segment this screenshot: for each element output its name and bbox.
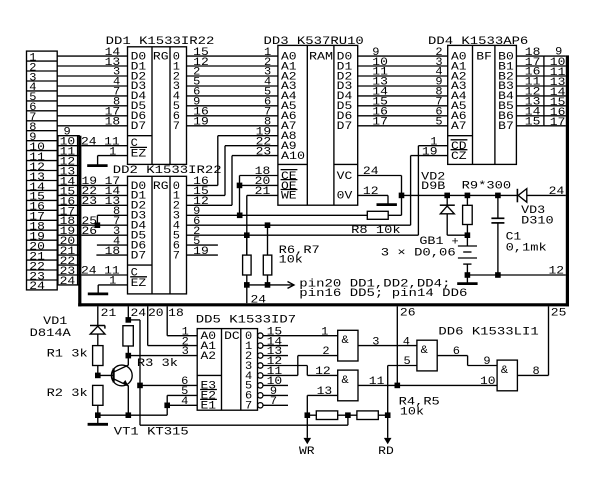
svg-text:9: 9 bbox=[64, 127, 71, 139]
svg-text:5: 5 bbox=[435, 117, 442, 129]
stub DD5 out13 bbox=[263, 355, 288, 357]
wire DD2 out4 row to DD4 CZ corner bbox=[187, 156, 411, 226]
svg-text:&: & bbox=[342, 335, 350, 347]
resistor R9*300 bbox=[462, 181, 512, 236]
labels of border crossings bbox=[101, 307, 567, 320]
svg-text:RG: RG bbox=[153, 181, 169, 193]
junction VC net and power rail bbox=[399, 193, 405, 199]
wire DD6.2 out6 to pin9 zigzag bbox=[437, 346, 497, 368]
svg-text:7: 7 bbox=[173, 121, 180, 133]
junction WE net on out5 row bbox=[244, 232, 250, 238]
svg-text:WE: WE bbox=[281, 191, 297, 203]
svg-text:24: 24 bbox=[29, 281, 45, 293]
svg-text:10k: 10k bbox=[400, 406, 425, 418]
net WE vertical to R6 bbox=[246, 195, 248, 255]
svg-text:24: 24 bbox=[81, 136, 97, 148]
junction R7 bottom bbox=[265, 282, 271, 288]
junction R2 bottom / emitter net bbox=[95, 412, 101, 418]
junction OE bbox=[237, 183, 243, 189]
svg-text:17: 17 bbox=[372, 117, 388, 129]
wire DD6 pin13 to WR net bbox=[307, 386, 337, 415]
svg-text:24: 24 bbox=[81, 266, 97, 278]
net CE/OE vertical to R8 row bbox=[239, 176, 241, 216]
svg-text:19: 19 bbox=[193, 246, 209, 258]
svg-text:RD: RD bbox=[378, 446, 394, 458]
junction R6 bottom bbox=[244, 282, 250, 288]
svg-text:R3 3k: R3 3k bbox=[137, 358, 179, 370]
svg-text:D814A: D814A bbox=[30, 328, 72, 340]
svg-text:R8 10k: R8 10k bbox=[351, 225, 401, 237]
junction pin18 branch bbox=[95, 222, 101, 228]
svg-text:19: 19 bbox=[422, 146, 438, 158]
svg-text:RAM: RAM bbox=[309, 51, 333, 63]
svg-text:&: & bbox=[501, 365, 509, 377]
wires DD4 B0-B7 to right connector bbox=[516, 47, 544, 129]
svg-text:VC: VC bbox=[337, 171, 353, 183]
svg-text:23: 23 bbox=[82, 196, 98, 208]
svg-text:18: 18 bbox=[168, 308, 184, 320]
svg-text:WR: WR bbox=[299, 446, 315, 458]
svg-text:0,1mk: 0,1mk bbox=[506, 243, 548, 255]
right thick bus line bbox=[566, 55, 569, 306]
wire DD6.1 out3 to pin4 bbox=[358, 336, 417, 348]
svg-text:pin16 DD5; pin14 DD6: pin16 DD5; pin14 DD6 bbox=[299, 288, 467, 300]
svg-text:GB1: GB1 bbox=[419, 236, 444, 248]
svg-text:6: 6 bbox=[453, 346, 460, 358]
svg-text:26: 26 bbox=[400, 307, 416, 319]
wire DD3 VC to power rail bbox=[358, 166, 402, 178]
resistors R6 R7 10k pull-ups bbox=[243, 225, 320, 285]
register DD1 K1533IR22 bbox=[106, 36, 215, 164]
svg-text:D310: D310 bbox=[521, 215, 554, 227]
svg-text:7: 7 bbox=[270, 396, 277, 408]
junction R7 top on out4 row bbox=[265, 222, 271, 228]
svg-text:DD4 K1533AP6: DD4 K1533AP6 bbox=[428, 36, 528, 48]
wire DD5 out15 to DD6 pin1 bbox=[263, 326, 338, 338]
junction 26 net bbox=[395, 383, 401, 389]
junction R5/RD bbox=[385, 412, 391, 418]
junction emitter on ground row bbox=[126, 412, 132, 418]
stub DD5 out10 bbox=[263, 384, 288, 386]
svg-text:VD1: VD1 bbox=[43, 316, 68, 328]
wire DD2 EZ to ground bbox=[98, 276, 127, 294]
svg-text:EZ: EZ bbox=[131, 149, 147, 161]
wires DD1 outputs 0-7 to DD3 A0-A7 bbox=[187, 47, 278, 129]
DD5 output inverter bubbles bbox=[258, 333, 263, 408]
svg-text:7: 7 bbox=[245, 401, 252, 413]
wire pin23 to DD2 C bbox=[81, 266, 128, 278]
wire DD4 CZ bbox=[411, 146, 448, 158]
wire WE bbox=[247, 186, 278, 198]
AND gate DD6.3 bbox=[338, 370, 358, 401]
DD5 output labels bbox=[267, 326, 283, 408]
svg-text:R1 3k: R1 3k bbox=[47, 348, 89, 360]
resistor R1 3k bbox=[47, 346, 103, 376]
svg-text:&: & bbox=[421, 345, 429, 357]
resistor R2 3k bbox=[47, 385, 103, 415]
junction C1 bottom bbox=[495, 272, 501, 278]
svg-text:CZ: CZ bbox=[451, 151, 467, 163]
svg-text:13: 13 bbox=[317, 386, 333, 398]
svg-text:2: 2 bbox=[322, 346, 329, 358]
svg-text:B7: B7 bbox=[498, 121, 514, 133]
svg-text:24: 24 bbox=[549, 186, 565, 198]
svg-text:24: 24 bbox=[131, 308, 147, 320]
wire emitter net to DD5 E2 bbox=[167, 386, 197, 398]
wire 20 to DD5 A1 bbox=[148, 306, 198, 348]
svg-text:3: 3 bbox=[372, 336, 379, 348]
wires connector pins 14-21 to DD2 D0-D7 bbox=[81, 176, 127, 258]
wires connector pins 1-8 to DD1 D0-D7 bbox=[57, 47, 127, 129]
svg-text:12: 12 bbox=[315, 366, 331, 378]
stub DD2 out6 bbox=[187, 244, 218, 246]
svg-text:25: 25 bbox=[551, 307, 567, 319]
ground bar for DD3 0V bbox=[377, 203, 397, 206]
svg-text:23: 23 bbox=[256, 146, 272, 158]
wire DD4 CD from write net bbox=[418, 136, 447, 148]
svg-text:9: 9 bbox=[555, 47, 562, 59]
capacitor C1 0,1mk bbox=[491, 195, 547, 275]
svg-text:EZ: EZ bbox=[131, 278, 147, 290]
svg-text:17: 17 bbox=[550, 117, 566, 129]
svg-text:0V: 0V bbox=[337, 191, 353, 203]
junction R4/R5 center bbox=[345, 412, 351, 418]
stub DD2 out7 bbox=[187, 254, 218, 256]
svg-text:3: 3 bbox=[182, 346, 189, 358]
wire RD net to DD6 pin5 bbox=[388, 356, 417, 415]
diode VD1 D814A bbox=[30, 306, 105, 345]
register DD2 K1533IR22 bbox=[113, 165, 222, 294]
wire emitter net to DD5 E1 bbox=[167, 396, 197, 408]
junction E3 on 24-net bbox=[137, 383, 143, 389]
wire DD2 out2 to DD3 A10 bbox=[187, 146, 278, 205]
wire 24-net to DD5 E3 bbox=[140, 376, 197, 388]
AND gate DD6.4 bbox=[497, 360, 517, 391]
svg-text:4: 4 bbox=[181, 396, 189, 408]
stub DD5 out14 bbox=[263, 345, 288, 347]
DD2 output labels bbox=[193, 176, 209, 258]
svg-text:1: 1 bbox=[109, 146, 117, 158]
wire collector net to DD5 A2 bbox=[128, 346, 197, 358]
svg-text:3 × D0,06: 3 × D0,06 bbox=[381, 248, 456, 260]
connector row wires 9-24 (cell dividers) bbox=[57, 136, 80, 285]
WR output arrow bbox=[299, 415, 315, 458]
right connector pin column bbox=[544, 47, 566, 129]
junction R3 bottom / collector / A2 wire bbox=[126, 353, 132, 359]
junction VD2 on rail bbox=[444, 193, 450, 199]
svg-text:R9*300: R9*300 bbox=[462, 181, 512, 193]
wire DD2 out3 row to R8 bbox=[187, 214, 368, 216]
svg-text:BF: BF bbox=[476, 51, 492, 63]
svg-text:24: 24 bbox=[60, 276, 76, 288]
svg-text:DD5 K1533ID7: DD5 K1533ID7 bbox=[196, 315, 296, 327]
junction R9/VD2/battery bbox=[465, 232, 471, 238]
RAM DD3 K537RU10 bbox=[264, 36, 364, 205]
wire DD6.4 out8 to border pin25 bbox=[517, 306, 548, 378]
wire 24-net bottom to R4/R5 center bbox=[140, 415, 348, 425]
ground bar for DD1 EZ bbox=[87, 164, 107, 167]
resistor R8 10k bbox=[351, 211, 401, 237]
svg-text:15: 15 bbox=[525, 117, 541, 129]
note arrow +5V pins bbox=[268, 278, 468, 300]
AND gate DD6.1 bbox=[338, 326, 539, 361]
wire DD2 out1 to DD3 A9 bbox=[187, 136, 278, 195]
svg-text:4: 4 bbox=[403, 336, 411, 348]
wire 18 to DD5 A0 bbox=[167, 306, 197, 338]
svg-text:12: 12 bbox=[549, 266, 565, 278]
svg-text:1: 1 bbox=[321, 326, 329, 338]
wire OE bbox=[240, 176, 278, 188]
svg-text:+: + bbox=[452, 236, 459, 248]
wire DD2 out0 to DD3 A8 bbox=[187, 126, 278, 185]
ground bar battery bbox=[457, 282, 477, 285]
svg-text:D7: D7 bbox=[131, 250, 147, 262]
svg-text:A10: A10 bbox=[281, 151, 305, 163]
wire DD6.3 out11 to DD6 pin10 bbox=[358, 376, 497, 388]
wire 26 from border to out11 row bbox=[396, 306, 398, 385]
connector inner pin column 9-24 bbox=[58, 127, 78, 288]
junction CE/OE net at R8 row bbox=[237, 213, 243, 219]
wire DD5 out12 to DD6 pin12 bbox=[263, 366, 338, 379]
wire emitter row to E-pins corner bbox=[98, 395, 167, 415]
stub DD5 out9 bbox=[263, 394, 288, 396]
junction R1/R2/base bbox=[95, 373, 101, 379]
wire DD1 EZ to ground bbox=[98, 146, 128, 165]
svg-text:&: & bbox=[342, 375, 350, 387]
resistors R4 R5 10k bbox=[307, 397, 440, 420]
transistor VT1 KT315 bbox=[98, 356, 189, 439]
svg-text:D7: D7 bbox=[337, 121, 353, 133]
svg-text:7: 7 bbox=[173, 250, 180, 262]
svg-text:24: 24 bbox=[251, 294, 267, 306]
diode VD3 D310 bbox=[517, 189, 553, 228]
decoder DD5 K1533ID7 bbox=[196, 315, 296, 413]
svg-text:9: 9 bbox=[483, 356, 490, 368]
RD output arrow bbox=[378, 415, 394, 458]
svg-text:18: 18 bbox=[105, 117, 121, 129]
svg-text:10k: 10k bbox=[279, 255, 304, 267]
left thick bus line bbox=[78, 136, 81, 307]
junction battery minus bbox=[465, 272, 471, 278]
junction C1 on rail bbox=[495, 193, 501, 199]
wires DD3 D0-D7 to DD4 A0-A7 bbox=[358, 47, 448, 129]
junction WR/R4 bbox=[305, 412, 311, 418]
wire to border pin 24 bbox=[247, 285, 267, 306]
wire DD2 out5 row to DD4 CD corner bbox=[187, 146, 419, 236]
stub DD5 out7 bbox=[263, 404, 288, 406]
svg-text:18: 18 bbox=[105, 246, 121, 258]
branch pin18 wire to DD2 D3 row bbox=[96, 215, 98, 225]
wire 24 net to R3 bbox=[128, 306, 140, 425]
svg-text:10: 10 bbox=[480, 376, 496, 388]
svg-text:12: 12 bbox=[363, 186, 379, 198]
ground bar below R2 bbox=[88, 415, 108, 424]
svg-text:24: 24 bbox=[363, 166, 379, 178]
svg-text:D7: D7 bbox=[131, 121, 147, 133]
svg-text:RG: RG bbox=[153, 51, 169, 63]
svg-text:21: 21 bbox=[255, 186, 271, 198]
wire DD3 0V to ground bbox=[358, 186, 388, 203]
wire DD5 out11 to DD6 pin2 bbox=[263, 346, 338, 375]
svg-text:20: 20 bbox=[148, 308, 164, 320]
svg-text:A7: A7 bbox=[451, 121, 467, 133]
wire CE from control net bbox=[240, 166, 278, 178]
svg-text:5: 5 bbox=[404, 356, 411, 368]
AND gate DD6.2 bbox=[417, 340, 437, 371]
svg-text:DD6 K1533LI1: DD6 K1533LI1 bbox=[438, 326, 539, 338]
bus driver DD4 K1533AP6 bbox=[428, 36, 528, 164]
extra labels DD3/connector pins on DD2 input wires bbox=[82, 176, 98, 238]
svg-text:E1: E1 bbox=[201, 401, 217, 413]
svg-text:11: 11 bbox=[369, 376, 385, 388]
junction R9 on rail bbox=[465, 193, 471, 199]
svg-text:A2: A2 bbox=[201, 351, 217, 363]
junction E1 wire bbox=[164, 403, 170, 409]
junction R3 top bbox=[126, 317, 132, 323]
svg-text:19: 19 bbox=[193, 117, 209, 129]
diode VD2 D9B bbox=[421, 171, 467, 235]
svg-text:1: 1 bbox=[109, 276, 117, 288]
svg-text:8: 8 bbox=[533, 366, 540, 378]
resistor R3 3k bbox=[123, 326, 179, 370]
svg-text:VT1 KT315: VT1 KT315 bbox=[114, 427, 189, 439]
power rail +5V standby bbox=[402, 186, 566, 198]
svg-text:21: 21 bbox=[101, 308, 117, 320]
bottom thick border line bbox=[78, 303, 569, 306]
ground bar for DD2 EZ bbox=[88, 292, 108, 295]
battery GB1 3xD-0,06 bbox=[381, 235, 477, 282]
svg-text:1: 1 bbox=[182, 326, 190, 338]
wire 0V line to pin 12 bbox=[467, 266, 565, 278]
svg-text:D9B: D9B bbox=[421, 181, 446, 193]
vertical VC net to R8 bbox=[401, 176, 403, 216]
svg-text:R2 3k: R2 3k bbox=[47, 388, 89, 400]
svg-text:DC: DC bbox=[224, 331, 240, 343]
connector XP1 outer pin column 1-24 bbox=[27, 51, 58, 293]
wire pin10 to DD1 C bbox=[81, 136, 128, 148]
